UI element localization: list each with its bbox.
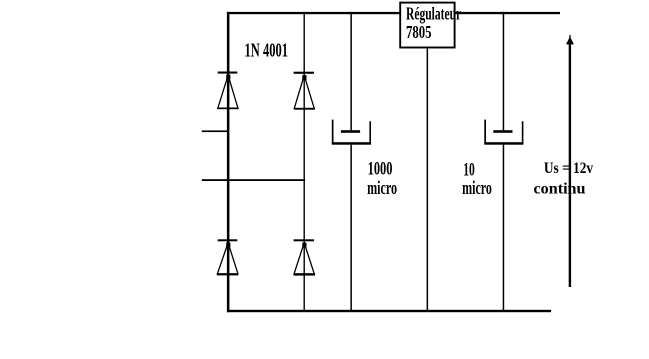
wire AC input stub lower [202, 179, 305, 181]
svg-text:micro: micro [367, 179, 397, 199]
diode D3 [217, 239, 238, 275]
capacitor C2 [484, 120, 523, 145]
wire capacitor C1 lower lead [350, 145, 352, 310]
diode D2 [294, 72, 315, 110]
svg-text:7805: 7805 [406, 22, 432, 42]
wire AC input stub upper [202, 130, 229, 132]
svg-text:Us = 12v: Us = 12v [544, 160, 593, 177]
wire capacitor C2 upper lead [503, 12, 505, 131]
wire bottom rail [227, 310, 551, 312]
svg-text:1000: 1000 [368, 160, 393, 180]
diode D1 [218, 72, 238, 110]
wire capacitor C1 upper lead [350, 12, 352, 131]
svg-text:Régulateur: Régulateur [406, 4, 461, 24]
svg-text:micro: micro [462, 179, 492, 199]
capacitor C1 [332, 120, 371, 145]
wire top rail [227, 12, 560, 14]
wire capacitor C2 lower lead [503, 145, 505, 310]
wire left bridge branch [227, 12, 230, 312]
wire second bridge branch [304, 12, 305, 311]
wire regulator ground pin [427, 48, 429, 310]
output arrow Us [566, 35, 574, 287]
regulator U1 box [400, 3, 454, 48]
diode D4 [294, 239, 316, 275]
svg-text:continu: continu [534, 181, 586, 198]
svg-text:1N 4001: 1N 4001 [245, 41, 289, 62]
svg-text:10: 10 [463, 160, 475, 180]
